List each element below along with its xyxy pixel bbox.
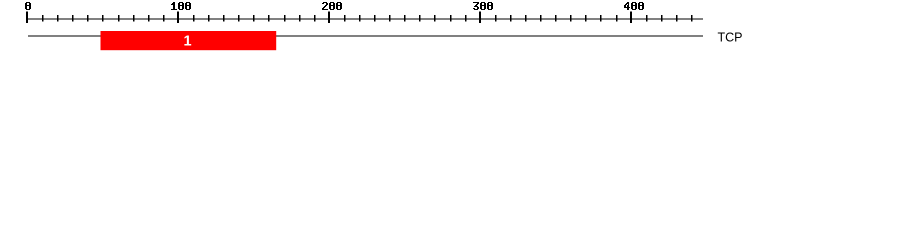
flow timeline wire (left segment) [28, 36, 101, 37]
background [0, 0, 900, 58]
ruler label "300" [473, 2, 493, 10]
ruler label "200" [322, 2, 342, 10]
flow duration box (flow 1) [101, 31, 277, 50]
ruler label "100" [171, 2, 191, 10]
flow timeline wire (right segment) [276, 36, 703, 37]
svg-text:TCP: TCP [718, 31, 743, 45]
ruler minor ticks [42, 15, 692, 22]
ruler label "400" [624, 2, 644, 10]
svg-text:1: 1 [184, 34, 192, 50]
ruler label "0" [25, 2, 31, 10]
ruler major ticks [26, 12, 632, 24]
ruler axis line [26, 18, 703, 19]
